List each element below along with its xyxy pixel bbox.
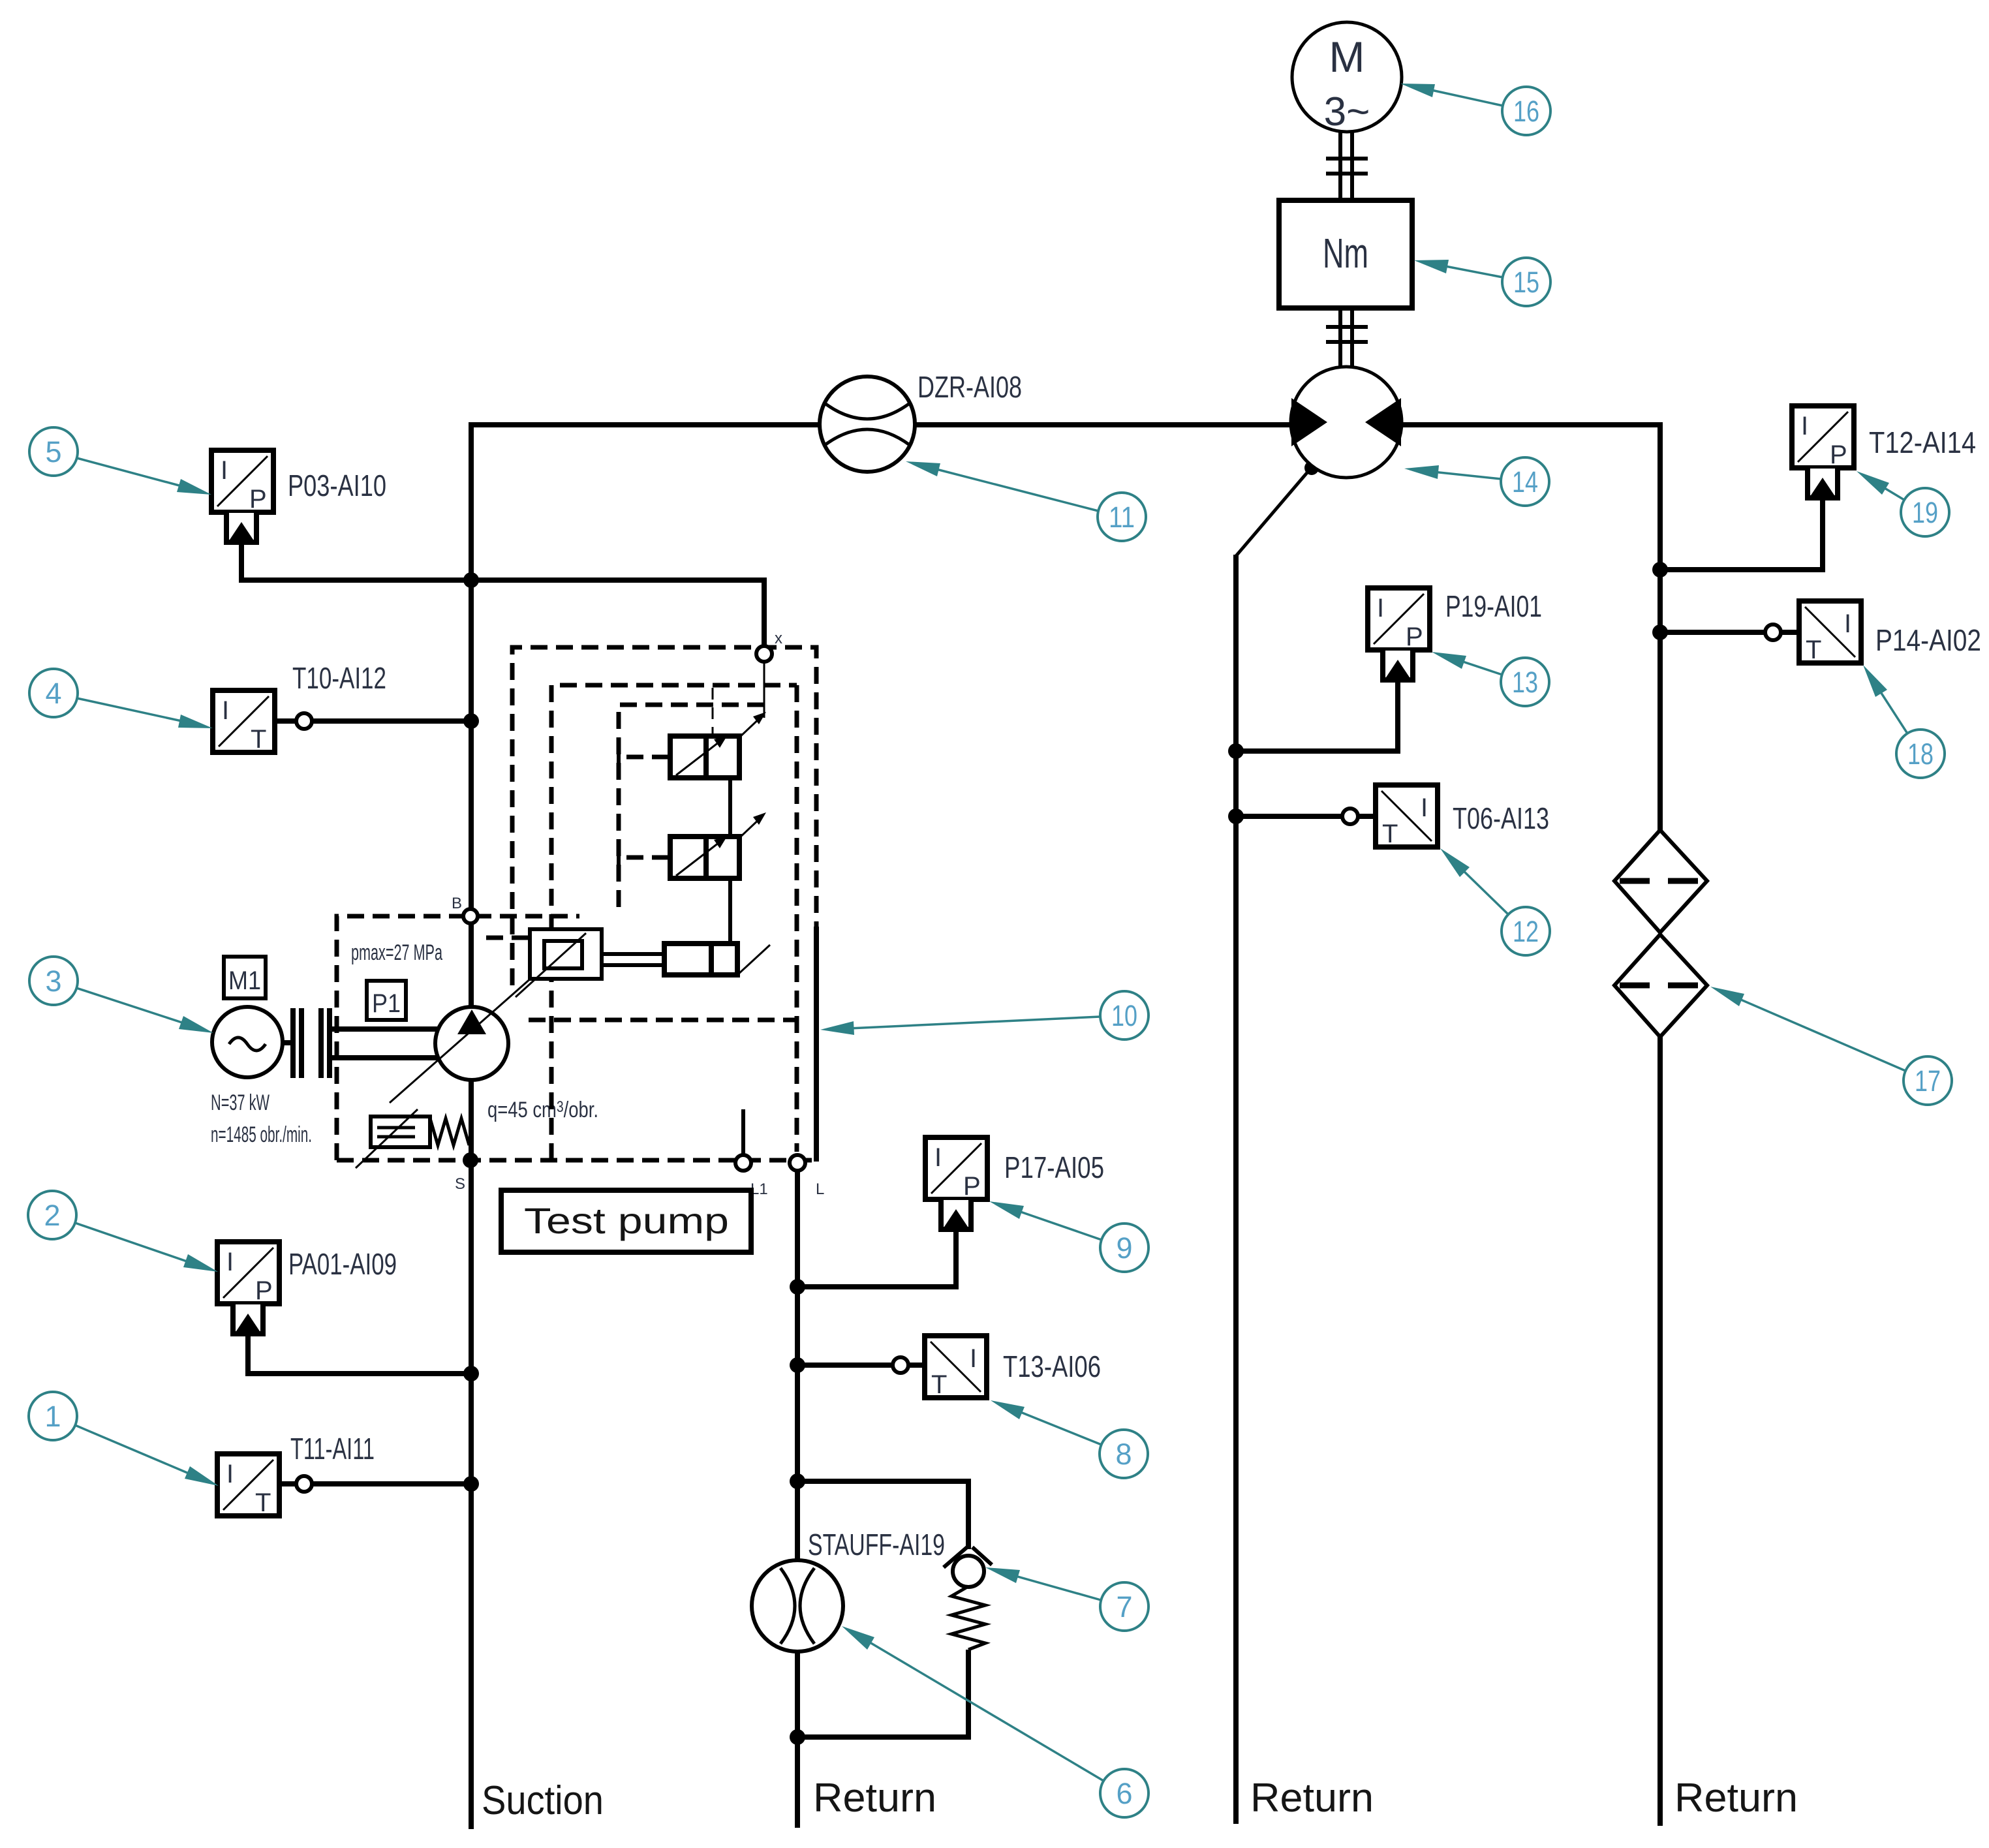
sensor P17-AI05: [925, 1137, 987, 1199]
wire check valve branch upper: [797, 1481, 968, 1549]
svg-text:T13-AI06: T13-AI06: [1003, 1349, 1101, 1383]
port circle T11: [279, 1481, 296, 1486]
svg-text:n=1485 obr./min.: n=1485 obr./min.: [211, 1122, 312, 1147]
svg-text:6: 6: [1116, 1777, 1132, 1810]
wire PA01 tap branch: [248, 1333, 471, 1374]
svg-text:Return: Return: [1250, 1776, 1374, 1821]
leader arrow 19: [1881, 486, 1904, 500]
wire T10 branch: [312, 718, 471, 724]
sensor T11-AI11: [217, 1454, 279, 1516]
svg-text:I: I: [1421, 793, 1428, 822]
svg-text:DZR-AI08: DZR-AI08: [917, 370, 1022, 404]
svg-text:S: S: [455, 1175, 465, 1193]
node junction T10: [463, 713, 479, 729]
sensor T12-AI14: [1792, 406, 1854, 468]
leader arrow 15: [1442, 266, 1503, 277]
flow meter STAUFF-AI19: [752, 1560, 843, 1652]
wire Return bus 4 lower: [1657, 1037, 1663, 1826]
svg-text:16: 16: [1513, 95, 1539, 128]
svg-text:P: P: [1830, 440, 1847, 469]
wire Suction bus: [469, 422, 474, 1829]
balloon 7: [1100, 1582, 1149, 1631]
leader arrow 3: [76, 988, 186, 1024]
check valve 7: [944, 1547, 967, 1567]
balloon 12: [1502, 907, 1550, 955]
wire motor case drain diagonal: [1236, 467, 1312, 556]
svg-text:14: 14: [1512, 465, 1538, 499]
leader arrow 8: [1017, 1411, 1102, 1445]
coupling shaft M to Nm: [1338, 132, 1342, 200]
sensor P14-AI02: [1799, 601, 1861, 663]
svg-text:P: P: [1406, 623, 1423, 651]
svg-text:I: I: [1844, 609, 1851, 638]
svg-text:M1: M1: [228, 966, 261, 995]
balloon 8: [1100, 1430, 1148, 1478]
wire P19 tap branch: [1236, 681, 1398, 751]
flow meter DZR-AI08: [820, 377, 915, 472]
svg-text:P19-AI01: P19-AI01: [1445, 589, 1542, 623]
electric motor M1: [212, 1007, 283, 1077]
svg-text:T10-AI12: T10-AI12: [292, 661, 386, 695]
svg-text:Return: Return: [1674, 1776, 1798, 1821]
balloon 19: [1901, 488, 1949, 536]
wire T06 branch: [1236, 814, 1342, 819]
balloon 9: [1100, 1224, 1149, 1272]
leader arrow 7: [1013, 1575, 1101, 1600]
svg-text:19: 19: [1912, 496, 1938, 529]
svg-text:17: 17: [1915, 1064, 1941, 1098]
svg-text:T: T: [1382, 820, 1398, 848]
balloon 6: [1100, 1769, 1149, 1817]
compensator valve: [371, 1116, 430, 1147]
test pump connection L: [790, 1155, 805, 1171]
shaft coupling M1-P1: [290, 1008, 296, 1078]
wire T11 branch: [312, 1481, 471, 1486]
svg-text:P14-AI02: P14-AI02: [1875, 623, 1981, 657]
balloon 15: [1502, 258, 1550, 306]
svg-text:I: I: [1377, 594, 1384, 623]
balloon 11: [1098, 493, 1146, 541]
svg-text:N=37 kW: N=37 kW: [211, 1090, 270, 1115]
port circle T10: [275, 718, 296, 724]
wire P14 branch: [1660, 630, 1765, 635]
svg-text:q=45 cm3/obr.: q=45 cm3/obr.: [487, 1098, 598, 1122]
motor M 3~: [1292, 22, 1402, 132]
leader arrow 16: [1428, 89, 1503, 106]
svg-text:P: P: [249, 485, 267, 514]
svg-text:Return: Return: [813, 1776, 936, 1821]
node junction STAUFF bottom: [790, 1729, 805, 1745]
leader arrow 10: [849, 1017, 1100, 1028]
svg-text:I: I: [934, 1143, 942, 1172]
variable displacement arrow: [390, 948, 565, 1103]
leader arrow 18: [1879, 689, 1907, 733]
leader arrow 17: [1736, 998, 1905, 1071]
filter diamond lower: [1614, 934, 1707, 1037]
svg-text:STAUFF-AI19: STAUFF-AI19: [808, 1528, 945, 1562]
svg-text:T: T: [255, 1488, 271, 1517]
svg-text:M: M: [1329, 33, 1365, 81]
leader arrow 5: [77, 458, 184, 487]
svg-text:T: T: [251, 725, 266, 754]
torque meter Nm: [1279, 200, 1412, 308]
wire T12 tap branch: [1660, 498, 1823, 570]
leader arrow 13: [1459, 660, 1502, 675]
node junction P19: [1228, 743, 1244, 759]
filter diamond upper: [1614, 830, 1707, 932]
svg-text:2: 2: [44, 1199, 60, 1232]
svg-text:I: I: [226, 1248, 234, 1276]
port B: [463, 909, 478, 923]
node junction STAUFF top: [790, 1473, 805, 1489]
actuator cylinder: [664, 944, 737, 975]
svg-text:1: 1: [44, 1400, 61, 1433]
dash-dot box control block inner: [551, 685, 797, 1160]
svg-text:9: 9: [1116, 1231, 1132, 1265]
svg-text:I: I: [226, 1460, 234, 1488]
svg-text:P03-AI10: P03-AI10: [288, 469, 386, 502]
svg-text:T06-AI13: T06-AI13: [1453, 801, 1549, 835]
sensor T06-AI13: [1376, 785, 1438, 847]
wire X pilot branch: [471, 580, 764, 646]
sensor PA01-AI09: [217, 1242, 279, 1304]
node junction T12: [1652, 562, 1668, 577]
dash-dot box control block outer: [512, 647, 816, 985]
sensor T10-AI12: [213, 690, 275, 752]
svg-text:x: x: [775, 630, 782, 647]
balloon 2: [28, 1191, 76, 1239]
svg-text:10: 10: [1111, 999, 1137, 1032]
balloon 14: [1501, 457, 1549, 506]
node junction P17: [790, 1279, 805, 1295]
svg-text:P: P: [255, 1276, 273, 1305]
node junction P03/X: [463, 572, 479, 588]
balloon 10: [1100, 991, 1149, 1039]
svg-text:B: B: [452, 895, 462, 912]
wire pilot dashed stub: [486, 936, 530, 940]
svg-text:4: 4: [45, 677, 61, 710]
wire T13 branch: [797, 1363, 893, 1368]
svg-text:Suction: Suction: [482, 1778, 604, 1823]
balloon 17: [1904, 1056, 1952, 1105]
svg-text:T: T: [931, 1370, 947, 1399]
pilot valve bottom-left: [530, 929, 602, 979]
wire top pressure line: [471, 422, 1660, 427]
svg-text:12: 12: [1513, 915, 1539, 948]
leader arrow 1: [75, 1425, 192, 1475]
svg-text:I: I: [222, 696, 229, 725]
svg-text:I: I: [221, 456, 228, 485]
node junction P14: [1652, 624, 1668, 640]
svg-text:T12-AI14: T12-AI14: [1869, 425, 1976, 459]
balloon 16: [1502, 87, 1550, 135]
svg-text:T11-AI11: T11-AI11: [290, 1432, 375, 1466]
sensor P19-AI01: [1368, 588, 1430, 650]
svg-text:pmax=27 MPa: pmax=27 MPa: [351, 940, 442, 965]
leader arrow 4: [77, 698, 185, 722]
svg-text:8: 8: [1115, 1438, 1132, 1471]
wire Return bus 3: [1233, 555, 1239, 1824]
wire Return bus 4 upper: [1657, 422, 1663, 830]
svg-text:T: T: [1806, 636, 1821, 664]
balloon 13: [1501, 658, 1549, 706]
svg-text:Nm: Nm: [1323, 230, 1368, 277]
valve V1: [670, 736, 739, 778]
leader arrow 6: [867, 1640, 1103, 1781]
svg-text:18: 18: [1907, 737, 1934, 771]
leader arrow 12: [1461, 869, 1508, 914]
wire pilot stub above V1: [712, 688, 714, 736]
node junction T13: [790, 1357, 805, 1373]
balloon 5: [29, 427, 78, 476]
svg-text:Test pump: Test pump: [524, 1200, 729, 1241]
svg-text:3~: 3~: [1324, 89, 1370, 134]
leader arrow 14: [1433, 472, 1501, 479]
port circle T13: [908, 1363, 925, 1368]
svg-text:13: 13: [1512, 666, 1538, 699]
balloon 3: [29, 957, 78, 1005]
valve V2: [670, 837, 739, 878]
sensor T13-AI06: [925, 1336, 987, 1398]
svg-text:15: 15: [1513, 266, 1539, 299]
port x: [756, 646, 772, 662]
balloon 1: [29, 1392, 77, 1440]
leader arrow 11: [934, 469, 1098, 511]
dash-dot box pilot inner: [619, 705, 767, 907]
leader arrow 2: [75, 1223, 191, 1263]
pump P1 label box: [367, 981, 406, 1020]
port circle T06: [1358, 814, 1376, 819]
wire P03 tap branch: [241, 543, 471, 580]
leader arrow 9: [1017, 1210, 1102, 1240]
motor M1 label box: [224, 957, 266, 998]
Test pump label box: [501, 1190, 751, 1252]
node junction T06: [1228, 808, 1244, 824]
hydraulic motor 14: [1291, 367, 1402, 478]
svg-text:P17-AI05: P17-AI05: [1004, 1150, 1104, 1184]
wire P17 tap branch: [797, 1229, 956, 1287]
svg-text:I: I: [1801, 412, 1808, 440]
svg-text:L: L: [816, 1180, 824, 1198]
balloon 4: [29, 669, 78, 717]
port S junction: [463, 1152, 478, 1168]
balloon 18: [1896, 730, 1945, 778]
wire check valve branch lower: [797, 1650, 968, 1737]
pump circle P1: [435, 1007, 508, 1080]
test pump connection L1: [741, 1109, 745, 1155]
svg-text:7: 7: [1116, 1590, 1132, 1624]
node junction PA01: [463, 1366, 479, 1381]
svg-text:P1: P1: [372, 989, 401, 1018]
svg-text:3: 3: [45, 964, 61, 998]
sensor P03-AI10: [211, 450, 273, 512]
node junction T11: [463, 1476, 479, 1492]
svg-text:PA01-AI09: PA01-AI09: [288, 1247, 397, 1281]
wire Return bus 2: [795, 1163, 800, 1828]
svg-text:5: 5: [45, 435, 61, 469]
port circle P14: [1781, 630, 1799, 635]
coupling shaft Nm to hydraulic motor: [1338, 308, 1342, 367]
svg-text:I: I: [970, 1344, 977, 1373]
svg-text:11: 11: [1109, 501, 1135, 534]
dash-dot box pump unit pmax: [337, 916, 579, 1160]
svg-text:P: P: [963, 1172, 981, 1201]
node motor drain dot: [1304, 461, 1319, 475]
